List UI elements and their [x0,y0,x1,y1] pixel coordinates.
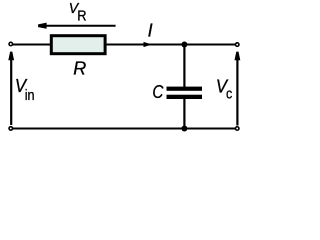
wire: capacitor lower lead [183,99,185,129]
resistor R1 body [51,36,105,54]
svg-text:R: R [77,8,86,25]
svg-text:in: in [25,87,35,104]
terminal top-right [235,43,239,47]
node B (bottom junction) [181,126,187,132]
svg-text:I: I [148,21,153,41]
node A (top junction) [181,42,187,48]
wire: top-left terminal to resistor [13,44,51,46]
voltage arrow V_c (points up, right side) [235,52,241,126]
voltage arrow V_R (points left above resistor) [38,23,116,29]
svg-text:c: c [226,85,233,102]
terminal bottom-right [235,127,239,131]
wire: node A to top-right terminal [184,44,235,46]
svg-text:C: C [152,82,164,102]
voltage arrow V_in (points up, left side) [8,52,14,125]
wire: capacitor upper lead [183,45,185,88]
wire: bottom rail [13,128,235,130]
current arrowhead I [144,42,153,47]
terminal bottom-left [9,127,13,131]
terminal top-left [9,42,13,46]
capacitor C1 plates [167,87,203,99]
svg-text:R: R [73,58,86,78]
wire: resistor to node A with current arrowhead [105,44,184,46]
